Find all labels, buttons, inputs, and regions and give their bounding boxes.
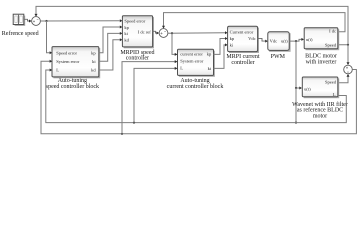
svg-text:Speed: Speed [325, 80, 337, 85]
wire: ki to MRPID [99, 33, 120, 61]
wire: speed node down to sum3 top [347, 45, 349, 63]
svg-text:u(t): u(t) [306, 37, 313, 42]
PWM block [268, 32, 291, 52]
svg-text:Speed error: Speed error [124, 19, 145, 24]
svg-text:Speed error: Speed error [56, 50, 77, 55]
wire: I dc ref to sum2 [153, 31, 157, 33]
svg-text:Refrence speed: Refrence speed [2, 30, 39, 37]
svg-text:Vdc: Vdc [270, 39, 278, 44]
junction: speed error node [45, 20, 47, 22]
svg-text:Current error: Current error [230, 30, 254, 35]
auto-tuning speed controller block [52, 47, 100, 79]
junction: inner rail tap [295, 122, 297, 124]
svg-text:controller: controller [231, 60, 254, 66]
wavenet block [302, 77, 339, 98]
svg-text:kd: kd [124, 37, 129, 42]
sum junction S3 [344, 65, 353, 74]
svg-text:L: L [333, 92, 336, 97]
svg-text:kd: kd [91, 68, 96, 73]
svg-text:u(t): u(t) [304, 86, 311, 91]
svg-text:L: L [56, 68, 59, 73]
svg-text:u(t): u(t) [281, 39, 288, 44]
wire: speed error from sum1 to MRPID [40, 20, 119, 22]
svg-text:kp: kp [207, 51, 212, 56]
wire: I dc feedback rail into sum2 top [164, 13, 346, 32]
wire: ki to MRPI [214, 45, 226, 69]
wire: system error from sum3 via outer rail to auto-tuning speed block [41, 61, 356, 134]
wire: current error from sum2 to MRPI [168, 32, 225, 34]
MRPID speed controller block [122, 16, 154, 49]
junction: inner rail tap at x134 [133, 122, 135, 124]
svg-text:PWM: PWM [271, 54, 286, 60]
svg-text:kp: kp [91, 50, 96, 55]
svg-text:with inverter: with inverter [306, 60, 337, 66]
MRPI current controller block [228, 26, 259, 53]
junction: u(t) node [295, 40, 297, 42]
svg-text:Speed: Speed [325, 42, 337, 47]
wire: kd to MRPID [99, 40, 120, 70]
svg-text:motor: motor [313, 113, 327, 119]
wire: Vdc to PWM [258, 38, 266, 41]
svg-text:BLDC motor: BLDC motor [305, 53, 337, 59]
wire: wavenet out2 via inner rail to auto-tuning speed block third input [46, 70, 347, 123]
svg-text:Vdc: Vdc [248, 36, 256, 41]
wire: u(t) drop to wavenet [296, 41, 300, 88]
wire: u(t) from PWM to BLDC motor [289, 39, 301, 41]
sum junction S1 [32, 17, 41, 26]
svg-text:System error: System error [180, 58, 204, 63]
BLDC motor with inverter block [304, 28, 339, 50]
svg-text:current controller block: current controller block [167, 84, 224, 90]
wire: inner rail tap up to auto-tuning current block third input [134, 68, 175, 122]
wire: wavenet speed up into sum3 [338, 76, 348, 82]
wire: current error drop to auto-tuning current block [172, 33, 175, 54]
svg-text:I dc: I dc [329, 29, 336, 34]
wire: kp to MRPID [99, 27, 120, 53]
svg-text:System error: System error [56, 59, 80, 64]
wire: u(t) continues down to inner rail [295, 88, 297, 123]
svg-text:current error: current error [180, 51, 203, 56]
reference speed source block [13, 14, 25, 26]
svg-text:L: L [180, 65, 183, 70]
svg-text:controller: controller [126, 56, 149, 62]
junction: speed node [347, 44, 349, 46]
wire: system error tap up to auto-tuning current block [122, 62, 175, 134]
junction: system error tap [121, 133, 123, 135]
wire: kp to MRPI [214, 39, 226, 55]
svg-text:kp: kp [124, 25, 129, 30]
svg-text:speed controller block: speed controller block [46, 84, 99, 90]
svg-text:I dc ref: I dc ref [138, 30, 151, 35]
auto-tuning current controller block [178, 49, 215, 77]
svg-text:kp: kp [230, 36, 235, 41]
wire: speed feedback top rail into sum1 [36, 6, 348, 44]
junction: u(t) node at wavenet [295, 87, 297, 89]
sum junction S2 [159, 29, 168, 38]
junction: current error node [171, 32, 173, 34]
wire: speed error drop to auto-tuning speed block [47, 21, 50, 53]
wire: source to sum1 [24, 19, 29, 21]
